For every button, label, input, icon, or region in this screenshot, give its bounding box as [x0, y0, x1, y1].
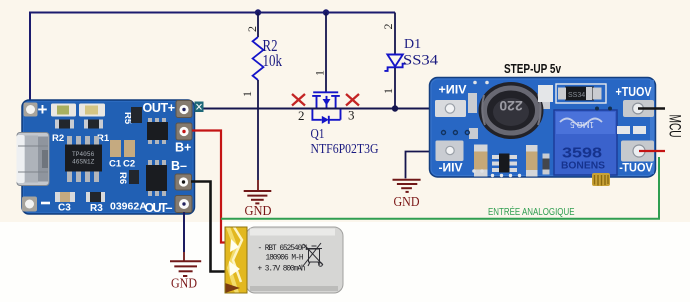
- svg-text:TP4056: TP4056: [72, 151, 95, 158]
- step-up trimpot: [554, 110, 617, 186]
- wire: top rail: [30, 12, 395, 14]
- svg-text:MCU: MCU: [666, 115, 684, 138]
- svg-text:VIN-: VIN-: [438, 162, 462, 174]
- node: junction gate top: [323, 9, 329, 15]
- svg-text:3598: 3598: [562, 145, 602, 162]
- step-up pad VOUT-: [621, 141, 654, 162]
- step-up pad VIN+: [435, 100, 466, 117]
- transistor Q1 NTF6P02T3G: [312, 92, 340, 124]
- svg-text:10k: 10k: [263, 51, 283, 70]
- wire: gate vertical: [325, 13, 327, 92]
- svg-text:VOUT+: VOUT+: [616, 85, 652, 99]
- TP4056 IC TP4056: [65, 136, 102, 182]
- step-up pad VOUT+: [623, 100, 654, 117]
- TP4056 pad B-: [175, 174, 192, 190]
- svg-text:VOUT-: VOUT-: [619, 163, 653, 175]
- svg-text:46SN1Z: 46SN1Z: [72, 159, 95, 166]
- svg-text:VIN+: VIN+: [439, 83, 467, 97]
- scissors mark: [195, 102, 204, 113]
- wire VIN- to ground right: [406, 152, 431, 179]
- svg-text:C3: C3: [58, 203, 71, 214]
- svg-text:180906 M-H: 180906 M-H: [266, 255, 304, 263]
- TP4056 corner pad bottom-left: [22, 197, 37, 212]
- svg-text:B+: B+: [175, 141, 191, 155]
- wire red B+: [192, 131, 229, 243]
- svg-text:+: +: [38, 100, 48, 119]
- svg-text:ENTRÉE ANALOGIQUE: ENTRÉE ANALOGIQUE: [488, 205, 575, 218]
- svg-text:BONENS: BONENS: [561, 161, 605, 172]
- wire red MCU VOUT-: [639, 150, 665, 152]
- svg-text:1: 1: [381, 88, 395, 94]
- svg-text:R2: R2: [52, 133, 64, 144]
- step-up tan components: [474, 145, 550, 177]
- TP4056 R5 chip: [131, 107, 142, 123]
- svg-text:Q1: Q1: [311, 127, 325, 142]
- ground middle: [244, 180, 272, 203]
- svg-text:1: 1: [240, 91, 254, 97]
- TP4056 - silkscreen: [41, 202, 50, 205]
- svg-text:+ 3.7V 800mAh: + 3.7V 800mAh: [258, 266, 306, 274]
- TP4056 resistor chips top: [55, 120, 103, 129]
- red X left of Q1: [292, 94, 305, 106]
- svg-text:1: 1: [313, 70, 327, 76]
- Q1 body diode: [322, 116, 329, 124]
- TP4056 C1 C2 caps: [110, 140, 121, 157]
- TP4056 led1: [51, 104, 76, 117]
- step-up pad VIN-: [436, 141, 464, 162]
- step-up white cap: [538, 85, 553, 102]
- svg-text:R3: R3: [90, 203, 103, 214]
- svg-text:OUT–: OUT–: [145, 201, 173, 215]
- svg-text:OUT+: OUT+: [143, 101, 176, 115]
- step-up smd diode: [556, 84, 606, 103]
- node: junction R2 top: [255, 9, 261, 15]
- step-up module MT3608: [430, 78, 656, 178]
- svg-text:SS34: SS34: [568, 92, 585, 99]
- Q1 channel arrow: [323, 99, 331, 106]
- red X right of Q1: [346, 94, 359, 106]
- step-up small white caps right: [617, 126, 630, 134]
- svg-text:GND: GND: [245, 204, 272, 219]
- step-up vias: [472, 81, 489, 173]
- TP4056 pad OUT+: [176, 101, 192, 118]
- TP4056 led2: [79, 104, 105, 117]
- wire green entree analogique: [221, 157, 659, 219]
- battery: [225, 227, 343, 293]
- TP4056 micro-usb: [17, 133, 50, 186]
- svg-text:220: 220: [499, 98, 523, 114]
- svg-text:B–: B–: [171, 159, 187, 173]
- wire black B-: [191, 182, 233, 272]
- node: junction D1 bottom: [392, 105, 398, 111]
- svg-text:GND: GND: [394, 195, 420, 210]
- TP4056 module: [22, 100, 195, 214]
- svg-text:1MΩ 5: 1MΩ 5: [570, 120, 594, 129]
- svg-text:R6: R6: [117, 172, 128, 184]
- svg-text:2: 2: [298, 108, 305, 123]
- wire: main OUT+ horizontal: [190, 108, 430, 110]
- svg-text:- RBT 652540PL: - RBT 652540PL: [258, 245, 310, 253]
- diode D1 SS34: [384, 13, 405, 109]
- resistor R2: [253, 13, 264, 109]
- svg-text:STEP-UP 5v: STEP-UP 5v: [504, 62, 561, 76]
- TP4056 FS8205 chip: [147, 118, 168, 144]
- svg-text:NTF6P02T3G: NTF6P02T3G: [311, 142, 379, 157]
- ground left: [170, 252, 201, 276]
- ground right: [393, 180, 421, 192]
- step-up inductor: [468, 82, 550, 139]
- svg-text:3: 3: [348, 108, 355, 123]
- wire black OUT- down: [183, 212, 185, 252]
- TP4056 DW01: [146, 160, 167, 196]
- wire: left vertical to TP4056 +: [29, 12, 31, 103]
- step-up via dots left: [442, 131, 470, 135]
- TP4056 pad B+: [176, 123, 192, 140]
- wire black MCU VOUT+: [638, 107, 665, 109]
- svg-text:2: 2: [381, 24, 395, 30]
- svg-text:D1: D1: [404, 37, 421, 52]
- TP4056 R3 chip: [86, 192, 105, 202]
- svg-text:SS34: SS34: [403, 53, 439, 69]
- step-up IC: [491, 154, 521, 178]
- TP4056 corner pad top-left: [24, 103, 38, 117]
- svg-text:2: 2: [245, 26, 259, 32]
- TP4056 pad OUT-: [175, 196, 192, 213]
- TP4056 R6 chip: [129, 170, 139, 184]
- svg-text:C1: C1: [109, 159, 122, 170]
- wire: R2 to middle ground: [257, 109, 259, 181]
- battery bin icon: [303, 243, 323, 266]
- TP4056 C3 cap: [55, 192, 75, 202]
- svg-text:C2: C2: [123, 159, 135, 170]
- svg-text:03962A: 03962A: [110, 201, 147, 213]
- svg-text:GND: GND: [171, 277, 197, 292]
